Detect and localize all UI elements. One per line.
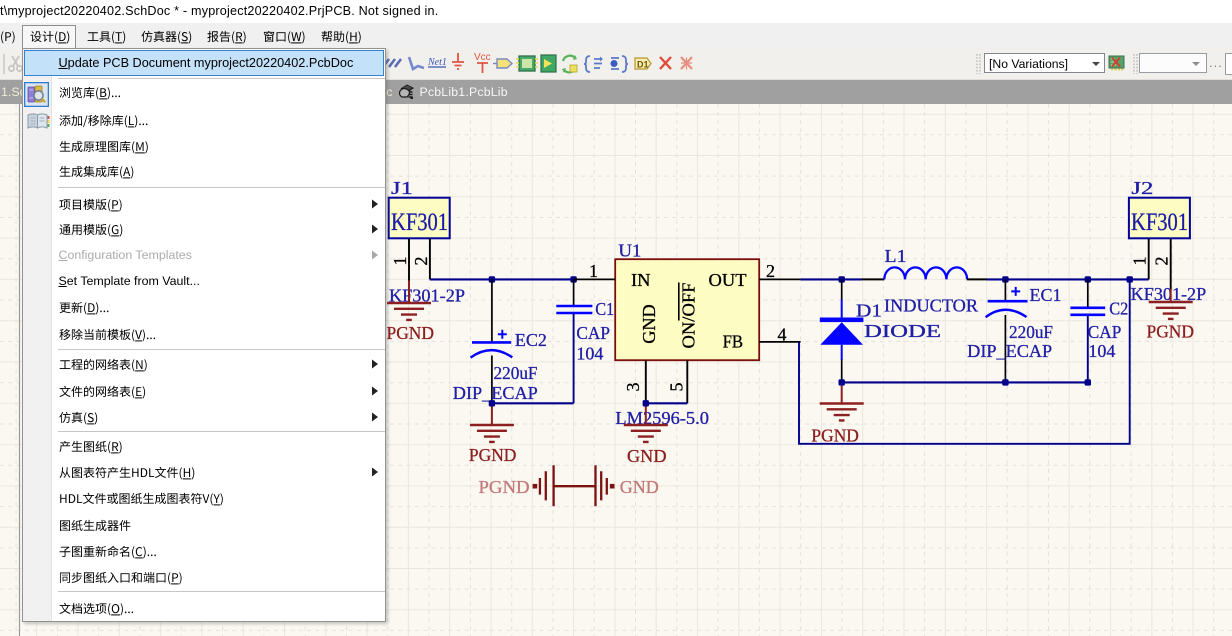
- J1 pin 1: [390, 239, 410, 282]
- svg-text:U1: U1: [618, 240, 641, 260]
- J2 pin 1: [1130, 239, 1150, 280]
- U1 pin 5: [666, 360, 687, 403]
- svg-text:3: 3: [623, 383, 643, 392]
- svg-text:D1: D1: [856, 301, 882, 321]
- svg-text:PGND: PGND: [387, 323, 435, 343]
- svg-text:GND: GND: [620, 477, 659, 497]
- svg-text:220uF: 220uF: [1009, 322, 1053, 342]
- J2 pin 2: [1152, 239, 1172, 291]
- svg-text:EC1: EC1: [1030, 285, 1062, 305]
- connector J1: [389, 178, 450, 238]
- svg-text:KF301: KF301: [391, 209, 448, 236]
- ground PGND at D1: [811, 386, 863, 446]
- svg-text:DIP_ECAP: DIP_ECAP: [453, 383, 538, 403]
- junction at D1 top: [839, 276, 845, 282]
- svg-text:104: 104: [1088, 341, 1115, 361]
- svg-text:FB: FB: [723, 332, 744, 352]
- junction at C1 top: [570, 276, 576, 282]
- svg-text:INDUCTOR: INDUCTOR: [884, 295, 978, 315]
- J1 label KF301-2P: [389, 286, 465, 306]
- wire U1 FB loop: [799, 279, 1130, 443]
- svg-text:OUT: OUT: [709, 270, 747, 290]
- svg-text:2: 2: [766, 261, 775, 281]
- net tie PGND to GND battery symbol: [479, 465, 659, 506]
- wire EC2 bottom to C1 bottom: [492, 402, 574, 404]
- junction at EC2 top: [489, 276, 495, 282]
- svg-text:ON/OFF: ON/OFF: [679, 283, 699, 349]
- svg-text:J1: J1: [391, 178, 413, 198]
- svg-text:2: 2: [411, 257, 431, 266]
- capacitor C2: [1070, 279, 1128, 382]
- svg-text:CAP: CAP: [576, 323, 610, 343]
- U1 label LM2596-5.0: [615, 408, 709, 428]
- svg-text:EC2: EC2: [515, 330, 547, 350]
- svg-text:Vcc: Vcc: [474, 52, 491, 63]
- inductor L1: [884, 246, 978, 315]
- svg-text:PGND: PGND: [811, 426, 859, 446]
- connector J2: [1129, 178, 1190, 238]
- wire L1 to J2 (net VOUT): [967, 278, 1149, 280]
- junction at EC1 top: [1002, 276, 1008, 282]
- svg-text:CAP: CAP: [1088, 322, 1122, 342]
- svg-text:DIP_ECAP: DIP_ECAP: [967, 341, 1052, 361]
- junction at C2 bottom: [1085, 379, 1091, 385]
- svg-text:GND: GND: [627, 446, 667, 466]
- svg-text:C1: C1: [595, 299, 614, 319]
- U1 pin 3: [623, 360, 646, 403]
- ground PGND at EC2: [469, 407, 517, 465]
- J2 label KF301-2P: [1131, 284, 1207, 304]
- svg-text:PGND: PGND: [479, 477, 530, 497]
- svg-text:1: 1: [589, 261, 598, 281]
- ground PGND at J2: [1147, 289, 1195, 342]
- J1 pin 2: [411, 239, 431, 280]
- wire J1.2 to U1 IN (net VIN): [430, 278, 574, 280]
- capacitor EC1: [967, 279, 1061, 382]
- svg-text:2: 2: [1152, 257, 1172, 266]
- svg-text:GND: GND: [639, 304, 659, 344]
- svg-text:Net1: Net1: [427, 57, 447, 68]
- U1 pin 4: [759, 324, 800, 344]
- svg-text:5: 5: [666, 383, 686, 392]
- svg-text:PGND: PGND: [1147, 322, 1195, 342]
- junction at C2 top: [1085, 276, 1091, 282]
- U1 pin 2: [759, 261, 800, 281]
- svg-text:1: 1: [390, 257, 410, 266]
- junction at J2 riser: [1127, 276, 1133, 282]
- svg-text:J2: J2: [1131, 178, 1153, 198]
- capacitor C1: [556, 279, 614, 403]
- svg-text:1: 1: [1130, 257, 1150, 266]
- ground PGND at J1: [387, 281, 435, 343]
- wire U1 OUT to L1 (net SW): [801, 278, 885, 280]
- svg-text:L1: L1: [885, 246, 907, 266]
- wire D1 to C2 bottom (PGND net): [842, 381, 1088, 383]
- junction at EC1 bottom: [1002, 379, 1008, 385]
- junction at EC2 bottom: [489, 400, 495, 406]
- op-amp U1 LM2596 regulator: [615, 240, 759, 360]
- wire U1 pin3 to pin5: [646, 402, 688, 404]
- svg-text:IN: IN: [631, 270, 651, 290]
- junction at D1 bottom: [839, 379, 845, 385]
- svg-text:DIODE: DIODE: [864, 321, 941, 341]
- svg-text:220uF: 220uF: [494, 363, 538, 383]
- U1 pin 1: [574, 261, 615, 281]
- diode D1: [820, 279, 941, 382]
- junction at U1 pin3: [643, 400, 649, 406]
- ground GND at U1: [624, 407, 668, 466]
- svg-text:4: 4: [778, 324, 787, 344]
- svg-text:KF301: KF301: [1131, 209, 1188, 236]
- svg-text:D1: D1: [637, 60, 649, 70]
- svg-text:PGND: PGND: [469, 445, 517, 465]
- svg-text:104: 104: [576, 344, 603, 364]
- capacitor EC2: [453, 279, 547, 403]
- svg-text:C2: C2: [1109, 299, 1128, 319]
